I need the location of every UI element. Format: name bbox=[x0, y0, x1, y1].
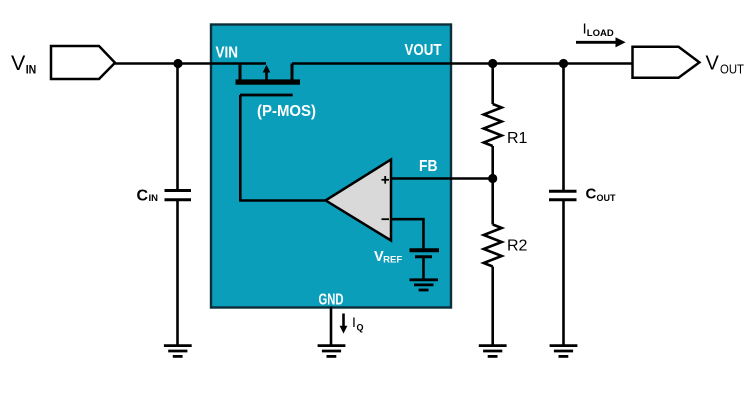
op-amp U2 error amplifier bbox=[326, 160, 391, 241]
svg-text:C: C bbox=[137, 188, 149, 205]
label VIN net bbox=[11, 51, 36, 77]
svg-text:V: V bbox=[11, 51, 26, 75]
capacitor CIN bbox=[165, 191, 192, 200]
ground for VREF bbox=[410, 280, 439, 290]
node junction FB divider tap bbox=[488, 174, 497, 183]
current arrow IQ bbox=[340, 314, 348, 334]
svg-text:OUT: OUT bbox=[597, 193, 617, 203]
node junction at CIN tap bbox=[173, 59, 182, 68]
wire FB from op-amp plus input bbox=[391, 177, 493, 180]
wire VREF to ground bbox=[422, 257, 425, 280]
wire R1 top lead bbox=[491, 64, 494, 105]
wire R1 bottom to FB node bbox=[491, 146, 494, 225]
svg-text:OUT: OUT bbox=[720, 62, 744, 76]
svg-text:C: C bbox=[586, 186, 597, 203]
PMOS body arrow bbox=[263, 65, 271, 80]
voltage reference VREF (battery) bbox=[410, 250, 440, 256]
svg-text:FB: FB bbox=[419, 158, 438, 175]
svg-text:R2: R2 bbox=[507, 238, 528, 255]
op-amp minus input marker bbox=[382, 218, 390, 220]
svg-text:LOAD: LOAD bbox=[587, 28, 614, 39]
wire COUT top lead bbox=[562, 64, 565, 191]
resistor R2 bbox=[484, 225, 502, 267]
input port connector VIN (pentagon) bbox=[51, 46, 115, 79]
svg-text:VOUT: VOUT bbox=[405, 42, 442, 59]
op-amp plus input marker bbox=[382, 176, 390, 184]
wire CIN bottom lead bbox=[176, 200, 179, 345]
LDO regulator block U1 (teal box) bbox=[211, 25, 451, 308]
transistor Q1 PMOS pass element bbox=[236, 64, 301, 96]
wire GND pin to ground bbox=[330, 307, 333, 346]
ground for GND pin bbox=[318, 346, 346, 357]
ground for R2 bbox=[479, 346, 507, 357]
ground for COUT bbox=[550, 346, 578, 357]
wire VOUT from PMOS drain to output port bbox=[292, 62, 633, 65]
label VOUT net bbox=[706, 53, 745, 77]
svg-text:VIN: VIN bbox=[216, 44, 239, 61]
resistor R1 bbox=[484, 104, 502, 146]
PMOS drain stub bbox=[291, 64, 294, 81]
svg-text:IN: IN bbox=[26, 63, 37, 77]
wire op-amp minus input to VREF bbox=[391, 219, 424, 249]
svg-text:Q: Q bbox=[357, 323, 364, 333]
label COUT bbox=[586, 186, 617, 203]
wire gate to op-amp output bbox=[240, 95, 326, 201]
svg-text:R1: R1 bbox=[507, 130, 528, 147]
svg-text:GND: GND bbox=[319, 292, 344, 309]
svg-text:REF: REF bbox=[383, 254, 403, 264]
PMOS source stub bbox=[239, 64, 242, 81]
svg-text:(P-MOS): (P-MOS) bbox=[257, 103, 316, 120]
PMOS channel bar bbox=[236, 79, 301, 84]
wire VIN port to PMOS source bbox=[115, 62, 266, 65]
output port connector VOUT (pentagon) bbox=[633, 47, 700, 78]
node junction at COUT top bbox=[559, 59, 568, 68]
node junction at R1 top bbox=[488, 59, 497, 68]
wire R2 bottom lead bbox=[491, 267, 494, 346]
label IQ bbox=[352, 314, 364, 333]
svg-text:IN: IN bbox=[149, 193, 159, 204]
ground for CIN bbox=[164, 346, 192, 357]
label ILOAD bbox=[583, 21, 614, 39]
svg-text:V: V bbox=[706, 53, 720, 75]
PMOS gate bar bbox=[240, 94, 293, 97]
label CIN bbox=[137, 188, 159, 205]
wire COUT bottom lead bbox=[562, 200, 565, 345]
svg-text:I: I bbox=[352, 314, 356, 330]
label VREF bbox=[374, 249, 403, 265]
wire CIN top lead bbox=[176, 64, 179, 191]
capacitor COUT bbox=[549, 191, 577, 200]
current arrow ILOAD bbox=[576, 37, 626, 47]
